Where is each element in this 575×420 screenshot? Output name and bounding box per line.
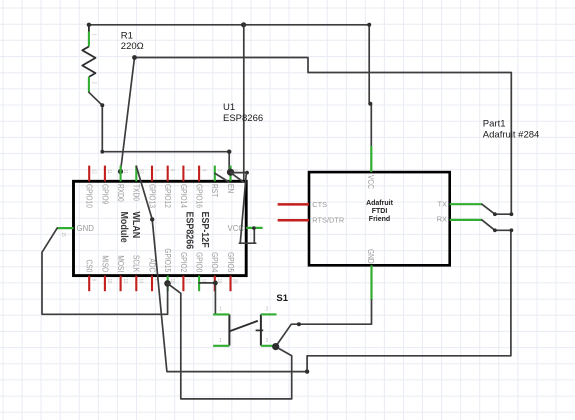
node bendpoint at rail start — [132, 55, 137, 60]
wire ESP GND to GPIO15 net — [42, 228, 168, 314]
wire ESP TXD0 to FTDI RX rail — [136, 166, 511, 371]
pin S1-2b stub — [261, 345, 277, 347]
svg-text:15: 15 — [61, 232, 66, 237]
wire EN branch down to ESP VCC loop — [239, 173, 255, 243]
pin GPIO14 stub (top) — [182, 166, 184, 182]
svg-text:CS0: CS0 — [84, 259, 94, 272]
pin SCLK stub (bottom) — [135, 276, 137, 292]
svg-text:17: 17 — [186, 279, 191, 284]
node EN junction (big) — [227, 169, 234, 176]
pin TXD0 stub (top) — [135, 166, 137, 182]
svg-text:RX: RX — [437, 215, 447, 224]
node bendpoint corner — [227, 150, 231, 154]
pin S1-2 stub — [261, 313, 277, 315]
svg-text:R1: R1 — [121, 31, 133, 42]
switch S1 (pushbutton) — [229, 314, 263, 345]
svg-text:7: 7 — [154, 169, 159, 172]
svg-text:GPIO2: GPIO2 — [179, 252, 189, 272]
svg-text:U1: U1 — [223, 102, 235, 113]
pin GPIO9 stub (top) — [104, 166, 106, 182]
node at RXD0 pin — [118, 169, 123, 174]
wire RX pin to right rail — [482, 220, 512, 230]
svg-text:12: 12 — [91, 169, 96, 174]
resistor R1 220 ohm — [82, 25, 95, 93]
pin EN stub (top) — [229, 166, 231, 182]
svg-text:CTS: CTS — [312, 200, 327, 209]
svg-text:GPIO15: GPIO15 — [163, 248, 173, 272]
svg-text:1: 1 — [219, 307, 222, 313]
svg-text:SCLK: SCLK — [132, 255, 142, 272]
svg-text:MOSI: MOSI — [116, 255, 126, 272]
node bendpoint — [100, 103, 104, 107]
node at VCC stub — [252, 226, 256, 230]
pin GPIO5 stub (bottom) — [229, 276, 231, 292]
node bendpoint — [510, 212, 514, 216]
svg-text:EN: EN — [226, 184, 236, 193]
pin RST stub (top) — [214, 166, 216, 182]
pin CS0 stub (bottom) — [88, 276, 90, 292]
node bendpoint — [493, 228, 497, 232]
wire GPIO0 to S1 pin1 — [199, 283, 216, 314]
svg-text:Friend: Friend — [369, 216, 390, 223]
pin S1-1b stub — [213, 345, 229, 347]
svg-text:1: 1 — [219, 338, 222, 344]
pin TX stub — [450, 203, 482, 205]
pin RXD0 stub (top) — [120, 166, 122, 182]
svg-text:MISO: MISO — [100, 255, 110, 272]
pin GPIO16 stub (top) — [198, 166, 200, 182]
svg-text:21: 21 — [123, 169, 128, 174]
svg-text:ESP8266: ESP8266 — [223, 113, 263, 124]
svg-text:VCC: VCC — [366, 175, 376, 189]
svg-text:GPIO14: GPIO14 — [179, 184, 189, 208]
pin GND stub (left) — [57, 227, 73, 229]
svg-text:13: 13 — [123, 279, 128, 284]
pin RX stub — [450, 219, 482, 221]
svg-text:GPIO12: GPIO12 — [163, 184, 173, 208]
node GPIO15 junction (big) — [164, 280, 171, 287]
pin GPIO10 stub (top) — [88, 166, 90, 182]
svg-text:1: 1 — [91, 34, 96, 37]
svg-text:20: 20 — [233, 279, 238, 284]
svg-text:9: 9 — [91, 279, 96, 282]
svg-text:Part1: Part1 — [483, 118, 506, 129]
svg-text:GPIO4: GPIO4 — [210, 252, 220, 272]
wire TX pin to right rail — [482, 204, 512, 214]
svg-text:2: 2 — [91, 82, 96, 85]
svg-text:RTS/DTR: RTS/DTR — [312, 216, 344, 225]
node bendpoint — [493, 212, 497, 216]
IC Part1 Adafruit FTDI Friend body — [309, 172, 450, 265]
node resistor-top junction — [87, 23, 91, 27]
pin ADC stub (bottom) — [151, 276, 153, 292]
wire resistor bottom to ESP EN — [89, 92, 229, 171]
wire top rail branch down to ESP EN/corner — [243, 25, 245, 182]
node bendpoint on TXD0 wire — [150, 217, 154, 221]
node bendpoint — [297, 322, 301, 326]
pin GPIO13 stub (top) — [151, 166, 153, 182]
svg-text:GPIO0: GPIO0 — [194, 252, 204, 272]
node S1 junction (big) — [272, 343, 279, 350]
svg-text:TXD0: TXD0 — [132, 184, 142, 201]
svg-text:14: 14 — [138, 279, 143, 284]
svg-text:GND: GND — [366, 249, 376, 264]
pin GPIO12 stub (top) — [167, 166, 169, 182]
wire EN junction to right branch — [231, 172, 248, 174]
svg-text:GPIO5: GPIO5 — [226, 252, 236, 272]
pin GPIO2 stub (bottom) — [182, 276, 184, 292]
pin GPIO15 stub (bottom) — [167, 276, 169, 292]
svg-text:Adafruit #284: Adafruit #284 — [483, 129, 540, 140]
node top-rail corner bendpoint — [367, 23, 371, 27]
wire FTDI TX rail to ESP RXD0 — [121, 58, 512, 215]
svg-text:1: 1 — [217, 169, 222, 172]
svg-text:Adafruit: Adafruit — [366, 200, 394, 207]
svg-text:2: 2 — [266, 307, 269, 313]
wire RST to EN (diagonal) — [215, 173, 229, 182]
svg-text:GPIO9: GPIO9 — [100, 184, 110, 204]
svg-text:5: 5 — [186, 169, 191, 172]
pin GPIO0 stub (bottom) — [198, 276, 200, 292]
svg-text:RST: RST — [210, 184, 220, 198]
svg-text:6: 6 — [170, 169, 175, 172]
pin GND stub (FTDI bottom) — [370, 265, 372, 300]
svg-text:4: 4 — [201, 169, 206, 172]
svg-text:TX: TX — [438, 199, 448, 208]
svg-text:FTDI: FTDI — [372, 208, 388, 215]
svg-text:10: 10 — [107, 279, 112, 284]
svg-text:RXD0: RXD0 — [116, 184, 126, 202]
node bendpoint — [305, 369, 309, 373]
wire EN dot to corner (diagonal) — [232, 174, 244, 182]
node GPIO0 branch — [213, 281, 218, 286]
pin MOSI stub (bottom) — [120, 276, 122, 292]
svg-text:S1: S1 — [276, 293, 288, 304]
pin VCC stub (right) — [246, 227, 262, 229]
pin MISO stub (bottom) — [104, 276, 106, 292]
wire GPIO15 to switch S1 (bottom loop) — [168, 283, 292, 399]
node bendpoint — [100, 150, 104, 154]
svg-text:GND: GND — [77, 224, 95, 233]
wire FTDI GND down to switch S1 — [276, 300, 372, 346]
node bendpoint on FTDI VCC drop — [368, 102, 372, 106]
svg-text:220Ω: 220Ω — [121, 41, 144, 52]
svg-text:2: 2 — [266, 338, 269, 344]
wire 3V3 rail top: resistor top to FTDI VCC — [89, 25, 371, 146]
svg-text:GPIO13: GPIO13 — [147, 184, 157, 208]
node branch endpoint — [245, 171, 249, 175]
node bendpoint — [510, 228, 514, 232]
node top-rail junction to EN branch — [241, 22, 246, 27]
op: none / IC U1 ESP8266 WLAN module body — [74, 181, 247, 275]
svg-text:GPIO16: GPIO16 — [194, 184, 204, 208]
svg-text:11: 11 — [107, 169, 112, 174]
pin CTS stub — [278, 203, 309, 206]
pin S1-1 stub — [213, 313, 229, 315]
pin RTS/DTR stub — [278, 219, 309, 222]
pin VCC stub (FTDI top) — [370, 146, 372, 172]
svg-text:GPIO10: GPIO10 — [84, 184, 94, 208]
pin GPIO4 stub (bottom) — [214, 276, 216, 292]
